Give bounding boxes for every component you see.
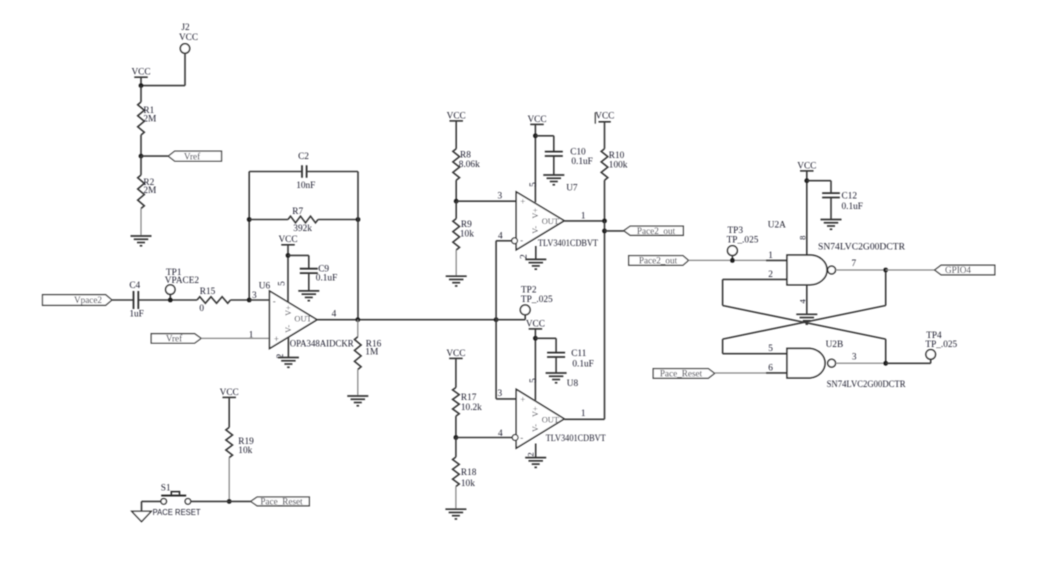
svg-text:4: 4: [332, 310, 337, 320]
svg-text:7: 7: [852, 259, 857, 269]
wire R7 right lead: [318, 219, 358, 221]
ground below C9: [298, 290, 319, 292]
svg-text:0.1uF: 0.1uF: [571, 157, 592, 167]
wire to Pace2_out flag: [605, 230, 624, 232]
capacitor C9: [300, 268, 318, 270]
svg-text:OPA348AIDCKR: OPA348AIDCKR: [290, 340, 355, 350]
svg-text:U6: U6: [259, 282, 271, 292]
wire right vertical to U8 out: [604, 221, 606, 419]
svg-text:2M: 2M: [143, 186, 156, 196]
svg-text:TP_.025: TP_.025: [727, 235, 759, 245]
svg-text:2M: 2M: [143, 115, 156, 125]
switch S1 contact circles: [161, 499, 167, 505]
U2A pin4 ground stem: [806, 285, 808, 315]
svg-text:10nF: 10nF: [296, 181, 315, 191]
ground below R16: [347, 395, 368, 397]
svg-text:+: +: [274, 334, 279, 344]
svg-text:R18: R18: [461, 468, 477, 478]
svg-text:4: 4: [498, 429, 503, 439]
svg-text:1: 1: [768, 251, 773, 261]
wire C10 to ground: [553, 156, 555, 175]
wire center node to U7 pin4: [496, 240, 512, 242]
svg-text:10k: 10k: [460, 229, 474, 239]
wire feedback left vertical: [248, 172, 250, 300]
node R7 left junction: [247, 217, 252, 222]
wire Vpace2 to C4: [112, 299, 133, 301]
resistor R1: [140, 86, 142, 102]
svg-text:SN74LVC2G00DCTR: SN74LVC2G00DCTR: [827, 380, 907, 390]
ground below C10: [543, 174, 564, 176]
svg-text:VCC: VCC: [595, 112, 614, 122]
U2A output bubble: [828, 266, 836, 274]
svg-text:C11: C11: [571, 349, 587, 359]
svg-text:S1: S1: [161, 483, 171, 493]
svg-text:0.1uF: 0.1uF: [316, 274, 337, 284]
svg-text:10k: 10k: [461, 479, 475, 489]
svg-text:2: 2: [520, 254, 530, 259]
nand gate U2B body: [787, 348, 825, 378]
wire U2A output: [836, 269, 886, 271]
svg-text:TP2: TP2: [521, 285, 537, 295]
node VCC/C11 junction: [533, 336, 538, 341]
wire to U7 pin3: [456, 200, 517, 202]
svg-text:VCC: VCC: [446, 349, 465, 359]
wire U2B output: [836, 362, 886, 364]
wire cross left down to U2B pin5: [722, 339, 724, 354]
node U2A out junction: [883, 268, 888, 273]
wire U8 output: [564, 418, 604, 420]
capacitor C11: [547, 352, 565, 354]
wire R15 to node: [231, 299, 250, 301]
switch S1 button bump: [171, 492, 179, 495]
svg-text:3: 3: [498, 389, 503, 399]
connector J2 pin circle: [180, 44, 189, 53]
svg-text:TP_.025: TP_.025: [925, 340, 957, 350]
svg-text:5: 5: [529, 378, 539, 383]
wire C11 to ground: [555, 357, 557, 373]
svg-text:+: +: [520, 394, 525, 404]
resistor R19: [226, 427, 233, 457]
svg-text:+: +: [520, 197, 525, 207]
op-amp U7 body: [516, 192, 564, 250]
wire to GPIO4: [886, 269, 935, 271]
wire to C10: [535, 135, 553, 137]
node Pace2_out junction: [602, 229, 607, 234]
ground below U6: [278, 357, 299, 359]
wire to U8 pin4: [456, 437, 512, 439]
svg-text:VCC: VCC: [179, 33, 198, 43]
svg-text:U2A: U2A: [768, 221, 786, 231]
svg-text:C4: C4: [129, 281, 140, 291]
svg-text:Pace2_out: Pace2_out: [639, 256, 678, 266]
svg-text:8.06k: 8.06k: [459, 160, 480, 170]
svg-text:U7: U7: [566, 184, 578, 194]
svg-text:2: 2: [526, 452, 536, 456]
svg-text:0.1uF: 0.1uF: [572, 359, 593, 369]
U8 inverting input bubble: [512, 435, 518, 441]
svg-text:1: 1: [249, 330, 254, 340]
wire U7 output: [564, 220, 604, 222]
svg-text:V-: V-: [531, 424, 540, 432]
wire cross diagonal A: [723, 306, 886, 340]
svg-text:V+: V+: [531, 406, 540, 417]
ground below R18: [445, 508, 466, 510]
wire Pace_Reset to U2B pin6: [715, 372, 766, 374]
wire S1 right to junction: [191, 500, 230, 502]
node TP1 junction: [168, 298, 173, 303]
node TP2 junction: [494, 317, 499, 322]
svg-text:-: -: [273, 296, 276, 306]
wire to C9: [288, 254, 309, 256]
U6 pin2 ground stem: [287, 337, 289, 357]
capacitor C12: [822, 192, 840, 194]
svg-text:392k: 392k: [293, 224, 312, 234]
net flag Pace_Reset output: [251, 497, 310, 506]
resistor R15: [197, 297, 231, 304]
node junction VCC/R1: [139, 83, 144, 88]
wire U2A pin2 cross-couple: [723, 278, 787, 280]
node output/R16 junction: [355, 317, 360, 322]
wire center vertical: [495, 241, 497, 399]
wire cross vertical right down: [885, 339, 887, 363]
svg-text:5: 5: [277, 281, 287, 286]
wire C4 to R15: [138, 299, 197, 301]
svg-text:VCC: VCC: [278, 235, 297, 245]
svg-text:U2B: U2B: [826, 340, 844, 350]
nand gate U2A body: [787, 255, 827, 285]
svg-text:VCC: VCC: [220, 388, 239, 398]
svg-text:VCC: VCC: [526, 319, 545, 329]
svg-text:OUT: OUT: [294, 315, 311, 324]
node U6 inverting input junction: [247, 298, 252, 303]
resistor R17: [453, 388, 460, 417]
svg-text:V+: V+: [531, 208, 540, 219]
svg-text:PACE RESET: PACE RESET: [153, 507, 201, 517]
svg-text:C2: C2: [298, 152, 309, 162]
capacitor C10: [545, 151, 563, 153]
svg-text:1: 1: [581, 409, 586, 419]
wire cross diagonal B: [723, 306, 886, 340]
ground below C12: [821, 219, 842, 221]
node U2B out junction: [883, 361, 888, 366]
U8 pin2 ground stem: [535, 444, 537, 458]
svg-text:U8: U8: [567, 379, 579, 389]
svg-text:1M: 1M: [365, 348, 378, 358]
wire J2 to VCC node: [184, 53, 186, 85]
svg-text:Pace_Reset: Pace_Reset: [660, 369, 703, 379]
svg-text:10.2k: 10.2k: [461, 403, 482, 413]
wire to C12: [807, 180, 831, 182]
wire to TP2: [496, 319, 525, 321]
wire C2 top right: [307, 171, 358, 173]
resistor R10: [601, 149, 608, 180]
svg-text:OUT: OUT: [542, 217, 559, 226]
svg-text:100k: 100k: [609, 160, 628, 170]
svg-text:10k: 10k: [238, 446, 252, 456]
svg-text:VCC: VCC: [131, 68, 150, 78]
svg-text:Pace_Reset: Pace_Reset: [260, 497, 303, 507]
wire S1 left to ground: [142, 500, 161, 502]
svg-text:OUT: OUT: [542, 416, 559, 425]
ground triangle below S1: [132, 511, 151, 521]
ground below U2A: [796, 313, 817, 315]
svg-text:1uF: 1uF: [129, 309, 143, 319]
wire center node to U8 pin3: [496, 398, 516, 400]
node VCC/C9 junction: [286, 253, 291, 258]
svg-text:3: 3: [852, 353, 857, 363]
wire Vref to U6 pin1: [201, 337, 269, 339]
svg-text:-: -: [520, 235, 523, 245]
svg-text:6: 6: [768, 363, 773, 373]
resistor R9: [455, 201, 457, 218]
svg-text:R17: R17: [461, 393, 477, 403]
net flag Pace_Reset input: [653, 369, 714, 379]
net flag Vref output: [168, 151, 221, 161]
op-amp U6 body: [270, 291, 318, 349]
net flag Vpace2 input: [43, 295, 112, 306]
svg-text:0.1uF: 0.1uF: [842, 202, 863, 212]
node R8/R9 junction: [454, 199, 459, 204]
svg-text:V+: V+: [284, 305, 293, 316]
wire node to U6 pin3: [249, 299, 269, 301]
svg-text:-: -: [520, 433, 523, 443]
svg-text:Vref: Vref: [184, 151, 201, 161]
capacitor C4: [133, 291, 135, 309]
node TP3 junction: [730, 258, 735, 263]
svg-text:0: 0: [199, 304, 204, 314]
node U7 out junction: [602, 219, 607, 224]
net flag Vref input: [151, 334, 201, 343]
wire C2 top left: [249, 171, 302, 173]
capacitor C2: [301, 165, 303, 178]
U7 pin5 stem: [534, 124, 536, 202]
wire cross vertical right up: [885, 270, 887, 306]
svg-text:5: 5: [529, 182, 539, 187]
wire to Pace_Reset flag: [229, 500, 251, 502]
U7 pin2 ground stem: [535, 246, 537, 259]
svg-text:V-: V-: [284, 325, 293, 333]
resistor R2: [140, 156, 142, 175]
svg-text:SN74LVC2G00DCTR: SN74LVC2G00DCTR: [818, 242, 906, 252]
svg-text:1: 1: [581, 211, 586, 221]
wire C12 to ground: [830, 198, 832, 220]
svg-text:4: 4: [798, 298, 808, 303]
net flag Pace2_out input: [629, 256, 689, 266]
node R7 right junction: [356, 217, 361, 222]
U2B output bubble: [828, 359, 836, 367]
wire C9 to ground: [308, 273, 310, 291]
wire to TP4: [886, 362, 931, 364]
resistor R8: [453, 149, 460, 180]
wire Pace2_out to U2A pin1: [689, 259, 767, 261]
ground below R9: [446, 275, 467, 277]
net flag Pace2_out output: [624, 226, 684, 235]
svg-text:8: 8: [798, 236, 808, 240]
switch S1 actuator bar: [161, 495, 186, 497]
svg-text:VCC: VCC: [797, 161, 816, 171]
svg-text:5: 5: [768, 344, 773, 354]
svg-text:GPIO4: GPIO4: [945, 265, 971, 275]
svg-text:J2: J2: [181, 23, 190, 33]
svg-text:C12: C12: [842, 191, 858, 201]
ground below R2: [131, 235, 152, 237]
ground below C11: [546, 372, 567, 374]
svg-text:TLV3401CDBVT: TLV3401CDBVT: [546, 434, 606, 444]
wire U6 output: [317, 319, 496, 321]
svg-text:Vref: Vref: [166, 334, 183, 344]
svg-text:V-: V-: [531, 226, 540, 234]
node R17/R18 junction: [454, 435, 459, 440]
node VCC/C12 junction: [804, 178, 809, 183]
node Pace_Reset junction: [227, 499, 232, 504]
node Vref junction: [139, 154, 144, 159]
svg-text:TP_.025: TP_.025: [521, 295, 553, 305]
op-amp U8 body: [516, 389, 564, 448]
svg-text:Pace2_out: Pace2_out: [637, 226, 676, 236]
svg-text:R15: R15: [200, 287, 216, 297]
wire R7 left lead: [249, 219, 288, 221]
U8 pin5 stem: [534, 329, 536, 400]
svg-text:4: 4: [498, 232, 503, 242]
resistor R16: [357, 320, 359, 337]
svg-text:TLV3401CDBVT: TLV3401CDBVT: [538, 239, 598, 249]
wire to C11: [535, 337, 556, 339]
svg-text:R7: R7: [292, 207, 303, 217]
svg-text:VCC: VCC: [447, 111, 466, 121]
U7 inverting input bubble: [512, 238, 518, 244]
wire to Vref flag: [141, 155, 168, 157]
resistor R18: [455, 438, 457, 458]
ground below U8: [525, 457, 546, 459]
node VCC/C10 junction: [533, 133, 538, 138]
wire feedback right vertical: [357, 172, 359, 320]
svg-text:3: 3: [498, 191, 503, 201]
resistor R7: [288, 216, 318, 223]
svg-text:Vpace2: Vpace2: [74, 295, 102, 305]
svg-text:VCC: VCC: [527, 115, 546, 125]
net flag GPIO4: [935, 265, 995, 275]
ground below U7: [525, 258, 546, 260]
